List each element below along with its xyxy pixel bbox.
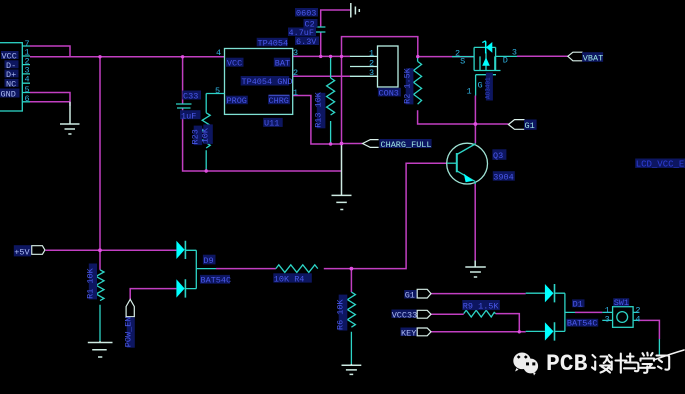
svg-text:10K R4: 10K R4 [274,275,305,285]
svg-text:4: 4 [25,75,30,85]
svg-text:5: 5 [215,86,220,96]
svg-text:3: 3 [293,48,298,58]
svg-text:+5V: +5V [14,248,30,258]
svg-text:CON3: CON3 [379,88,399,98]
svg-text:KEY: KEY [401,328,416,338]
svg-text:D9: D9 [203,256,213,266]
svg-text:4: 4 [635,315,640,325]
svg-text:R1 10K: R1 10K [86,267,96,299]
svg-text:0603: 0603 [296,9,316,19]
svg-text:BAT: BAT [275,59,290,69]
svg-text:PROG: PROG [227,96,247,106]
svg-text:BAT54C: BAT54C [567,319,598,329]
svg-text:VBAT: VBAT [583,53,603,63]
svg-text:TP4054: TP4054 [258,38,289,48]
svg-text:CHARG_FULL: CHARG_FULL [381,140,432,150]
svg-text:10K: 10K [201,127,211,143]
svg-text:1: 1 [467,87,472,97]
svg-text:2: 2 [293,68,298,78]
svg-text:3904: 3904 [493,173,513,183]
svg-text:3: 3 [369,68,374,78]
svg-text:1uF: 1uF [181,111,196,121]
svg-text:SW1: SW1 [614,298,629,308]
svg-text:CHRG: CHRG [269,96,289,106]
svg-text:4: 4 [216,48,221,58]
svg-text:1: 1 [293,88,298,98]
svg-text:NC: NC [6,79,16,89]
svg-text:R9 1.5K: R9 1.5K [463,302,500,312]
svg-text:G1: G1 [405,291,415,301]
svg-text:POW_EN: POW_EN [124,317,134,348]
svg-text:C33: C33 [183,92,198,102]
svg-text:PCB: PCB [546,351,588,377]
svg-text:D: D [503,56,508,66]
svg-text:GND: GND [1,90,16,100]
svg-text:R13 10K: R13 10K [314,91,324,128]
svg-text:G1: G1 [525,121,535,131]
svg-text:LCD_VCC_EN: LCD_VCC_EN [636,160,685,170]
svg-text:TP4054 GND: TP4054 GND [242,77,293,87]
svg-text:D1: D1 [573,299,583,309]
svg-text:AO3401: AO3401 [485,77,492,99]
svg-text:R2 1.5K: R2 1.5K [402,67,412,104]
svg-text:6.3V: 6.3V [296,37,317,47]
svg-text:3: 3 [605,315,610,325]
svg-text:BAT54C: BAT54C [201,276,232,286]
svg-text:R6 10K: R6 10K [336,298,346,330]
svg-text:U11: U11 [264,119,279,129]
svg-text:VCC33: VCC33 [392,310,418,320]
svg-text:2: 2 [369,58,374,68]
svg-text:3: 3 [512,47,517,57]
svg-text:1: 1 [369,49,374,59]
svg-text:VCC: VCC [227,59,242,69]
svg-text:S: S [460,57,465,67]
svg-text:R23: R23 [191,129,201,144]
svg-text:6: 6 [25,94,30,104]
svg-text:G: G [478,81,483,91]
svg-text:Q3: Q3 [493,151,503,161]
